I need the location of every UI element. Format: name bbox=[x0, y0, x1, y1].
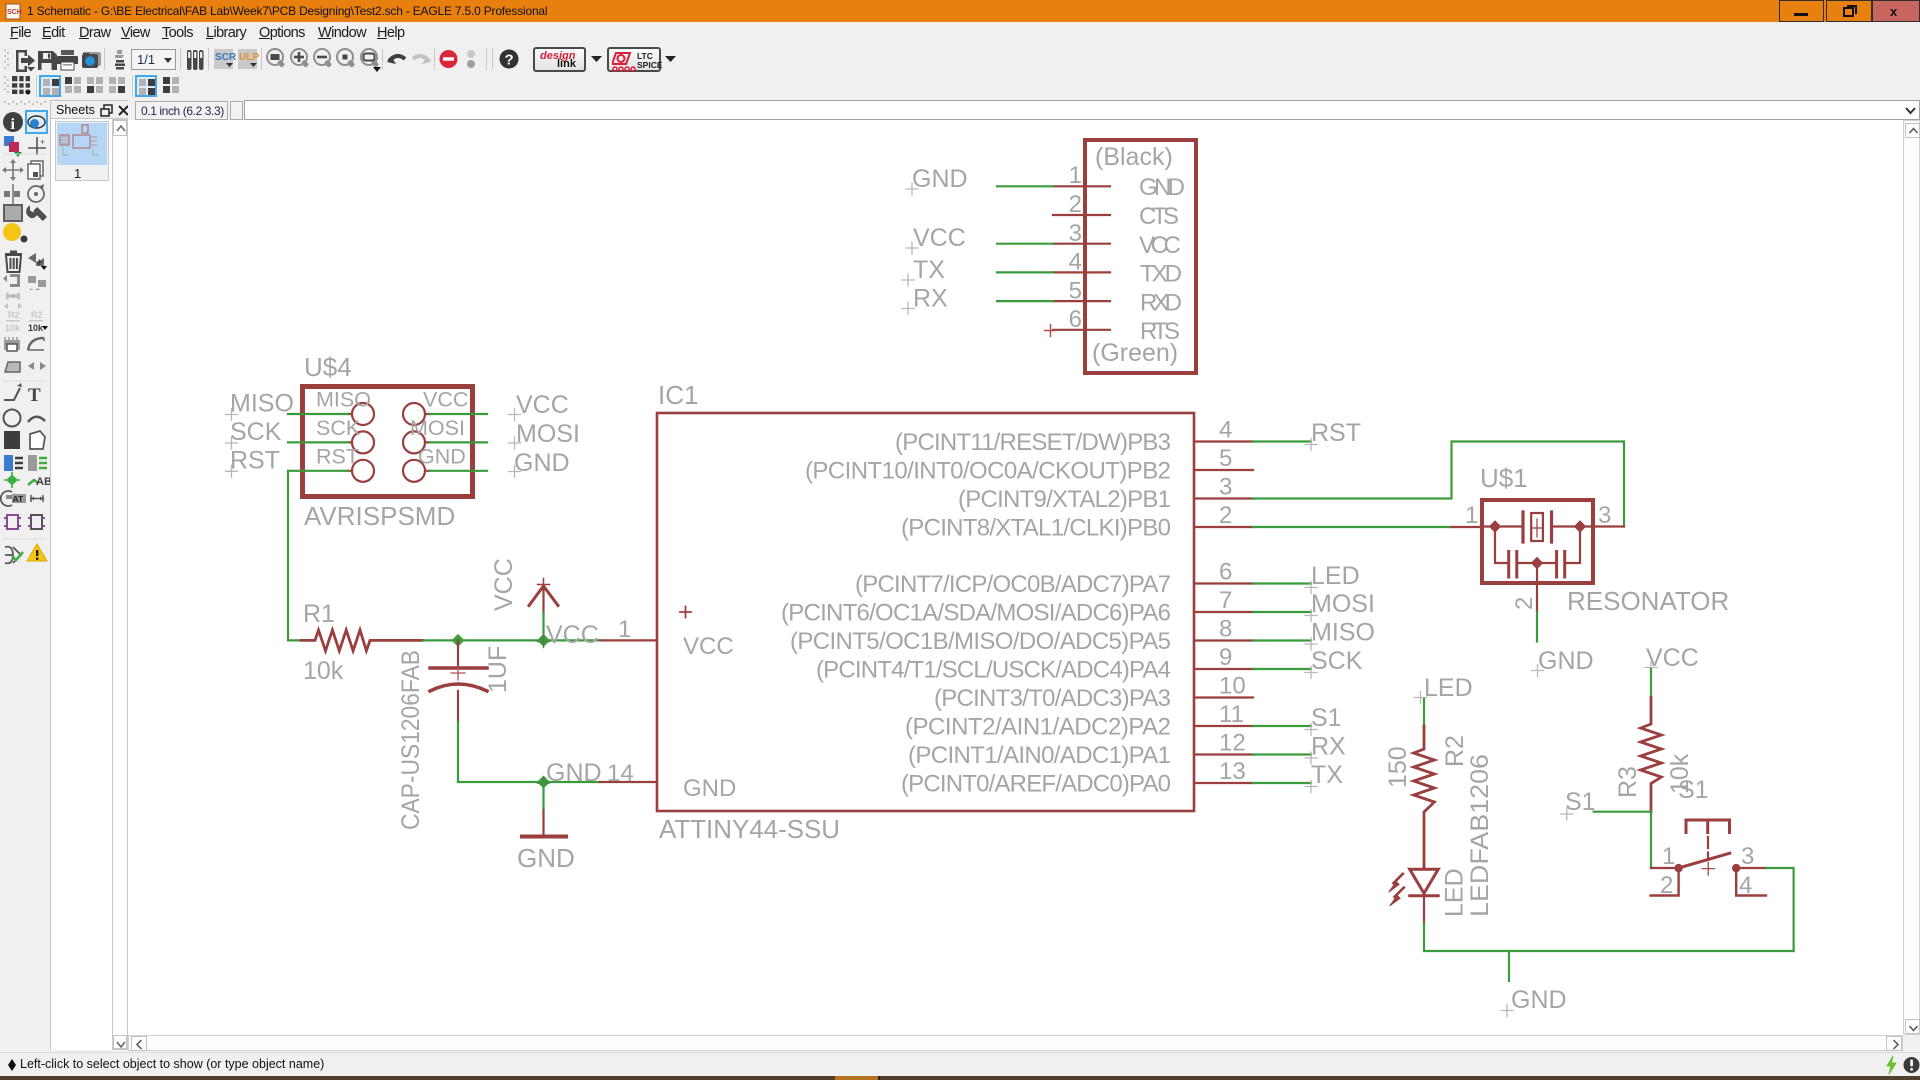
svg-text:2: 2 bbox=[1660, 872, 1673, 899]
svg-text:MOSI: MOSI bbox=[410, 416, 465, 440]
svg-text:TX: TX bbox=[913, 256, 945, 284]
net label RX (IC1 pin12) bbox=[1305, 733, 1346, 765]
svg-text:GND: GND bbox=[418, 445, 466, 469]
resistor R1 bbox=[301, 630, 423, 651]
wire net RX to connector bbox=[997, 300, 1053, 302]
svg-text:RX: RX bbox=[913, 285, 948, 313]
U$4 pin circles bbox=[348, 403, 430, 482]
net label S1 (IC1 pin11) bbox=[1305, 704, 1342, 736]
net label GND (bottom) bbox=[1501, 986, 1567, 1017]
svg-text:+: + bbox=[36, 257, 42, 269]
wire RST net down to R1 bbox=[288, 471, 301, 641]
wire S1 label to switch bbox=[1594, 812, 1651, 868]
wire C1 to GND rail bbox=[458, 722, 544, 782]
resonator junction dots bbox=[1489, 520, 1586, 569]
svg-text:SCK: SCK bbox=[1311, 647, 1363, 675]
svg-text:10: 10 bbox=[1219, 673, 1246, 700]
capacitor C1 stem upper bbox=[457, 640, 459, 668]
svg-text:4: 4 bbox=[1219, 417, 1232, 444]
resistor R2 bbox=[1414, 726, 1435, 868]
resistor R3 bbox=[1641, 698, 1662, 812]
svg-text:SCK: SCK bbox=[316, 416, 361, 440]
LED emission arrows bbox=[1389, 874, 1404, 906]
svg-text:T: T bbox=[28, 385, 41, 406]
svg-text:GND: GND bbox=[546, 759, 602, 787]
svg-text:GND: GND bbox=[1511, 986, 1567, 1014]
wire U$4 GND out bbox=[430, 470, 487, 472]
IC1 plus mark bbox=[680, 607, 691, 618]
wire stub IC1 pin1 bbox=[600, 639, 657, 641]
net label SCK bbox=[226, 418, 282, 449]
resonator pin numbers 1 3 2 bbox=[1465, 502, 1611, 610]
svg-text:R1: R1 bbox=[303, 600, 335, 628]
wire net TX to connector bbox=[997, 271, 1053, 273]
LED name rotated bbox=[1441, 868, 1469, 917]
wire stub to GND label bbox=[1508, 951, 1510, 981]
svg-text:CTS: CTS bbox=[1139, 203, 1179, 230]
svg-text:VCC: VCC bbox=[546, 621, 599, 649]
svg-text:5: 5 bbox=[1219, 445, 1232, 472]
svg-text:(PCINT8/XTAL1/CLKI)PB0: (PCINT8/XTAL1/CLKI)PB0 bbox=[901, 515, 1171, 542]
net label VCC (at IC1 pin1) bbox=[538, 621, 599, 649]
junction at VCC arrow bbox=[537, 634, 550, 647]
IC1 value ATTINY44-SSU bbox=[659, 814, 840, 844]
svg-text:MISO: MISO bbox=[230, 390, 294, 418]
capacitor C1 origin cross bbox=[451, 666, 465, 680]
wire IC1 pin9 to SCK label bbox=[1253, 668, 1311, 670]
svg-text:GND: GND bbox=[1139, 174, 1185, 201]
connector origin cross bbox=[1045, 325, 1057, 337]
svg-text:7: 7 bbox=[1219, 587, 1232, 614]
net label GND (IC1 pin14) bbox=[538, 759, 602, 789]
connector pin 5 RXD stub bbox=[1053, 300, 1110, 302]
net label VCC (above R3) bbox=[1645, 644, 1699, 674]
svg-text:10k: 10k bbox=[303, 657, 344, 685]
LED value LEDFAB1206 bbox=[1466, 754, 1494, 917]
svg-text:12: 12 bbox=[1219, 730, 1246, 757]
net label GND (resonator) bbox=[1532, 647, 1594, 677]
connector U$4 AVRISPSMD box bbox=[303, 387, 473, 497]
svg-text:(PCINT6/OC1A/SDA/MOSI/ADC6)PA6: (PCINT6/OC1A/SDA/MOSI/ADC6)PA6 bbox=[781, 600, 1171, 627]
svg-text:RX: RX bbox=[1311, 733, 1346, 761]
wire IC1 pin3 to resonator pin3 bbox=[1253, 442, 1624, 527]
net label MOSI (IC1 pin7) bbox=[1305, 590, 1375, 622]
wire U$4 MOSI out bbox=[430, 441, 487, 443]
connector pin 4 TXD stub bbox=[1053, 271, 1110, 273]
net label VCC (top) bbox=[906, 224, 966, 254]
wire stub IC1 pin14 bbox=[600, 781, 657, 783]
svg-text:S1: S1 bbox=[1311, 704, 1342, 732]
wire RST to U$4 bbox=[288, 470, 348, 472]
net label MOSI (U$4 right) bbox=[509, 420, 580, 449]
wire IC1 pin13 to TX label bbox=[1253, 782, 1311, 784]
net label LED (IC1 pin6) bbox=[1305, 562, 1360, 594]
svg-text:1: 1 bbox=[1662, 843, 1675, 870]
bottom horizontal scrollbar bbox=[128, 1035, 1903, 1051]
svg-text:1: 1 bbox=[1465, 502, 1478, 529]
wire R1 to IC1 VCC bbox=[423, 639, 600, 641]
svg-text:VCC: VCC bbox=[423, 388, 468, 412]
resonator pin1 stub bbox=[1452, 526, 1481, 528]
net label TX (IC1 pin13) bbox=[1305, 761, 1343, 793]
svg-text:RST: RST bbox=[316, 445, 359, 469]
resonator pin3 stub bbox=[1595, 525, 1624, 527]
switch S1 pin2 stub bbox=[1651, 870, 1679, 896]
IC1 port names PB3..PB0 PA7..PA0 bbox=[781, 429, 1171, 798]
connector pin names bbox=[1139, 174, 1185, 345]
svg-text:3: 3 bbox=[1219, 474, 1232, 501]
toolbar row 1 bbox=[0, 45, 1920, 74]
svg-text:(PCINT3/T0/ADC3)PA3: (PCINT3/T0/ADC3)PA3 bbox=[934, 685, 1171, 712]
IC1 ATTINY44-SSU box bbox=[657, 413, 1194, 811]
left tool palette bbox=[0, 98, 50, 1052]
connector J-FTDI box bbox=[1085, 140, 1196, 373]
connector label (Green) bbox=[1092, 339, 1178, 367]
junction at GND rail bbox=[537, 775, 550, 788]
svg-text:2: 2 bbox=[1511, 597, 1538, 610]
LED D1 symbol bbox=[1410, 869, 1439, 896]
svg-text:MOSI: MOSI bbox=[1311, 590, 1375, 618]
svg-text:VCC: VCC bbox=[490, 558, 518, 611]
svg-text:(PCINT0/AREF/ADC0)PA0: (PCINT0/AREF/ADC0)PA0 bbox=[901, 771, 1171, 798]
svg-text:LED: LED bbox=[1311, 562, 1360, 590]
capacitor name CAP-US1206FAB bbox=[397, 650, 425, 830]
svg-text:14: 14 bbox=[607, 760, 634, 787]
net label RST bbox=[226, 447, 281, 478]
svg-text:(PCINT4/T1/SCL/USCK/ADC4)PA4: (PCINT4/T1/SCL/USCK/ADC4)PA4 bbox=[816, 657, 1171, 684]
svg-text:RXD: RXD bbox=[1140, 290, 1182, 317]
schematic canvas drawing bbox=[128, 120, 1903, 1035]
net label MISO (IC1 pin8) bbox=[1305, 619, 1375, 651]
svg-text:3: 3 bbox=[1741, 843, 1754, 870]
switch S1 pin numbers bbox=[1660, 843, 1754, 899]
connector pin 3 VCC stub bbox=[1053, 243, 1110, 245]
svg-text:GND: GND bbox=[683, 775, 736, 802]
value 10k (R3) bbox=[1666, 753, 1694, 794]
net label RST (IC1 pin4) bbox=[1305, 419, 1361, 451]
right vertical scrollbar bbox=[1903, 120, 1920, 1035]
IC1 GND pin name bbox=[683, 775, 736, 802]
svg-text:GND: GND bbox=[912, 165, 968, 193]
wire GND rail to IC1 pin14 bbox=[544, 781, 601, 783]
svg-text:10k: 10k bbox=[5, 323, 21, 333]
net label SCK (IC1 pin9) bbox=[1305, 647, 1363, 679]
wire VCC arrow to junction bbox=[542, 612, 544, 640]
IC1 pin1 number bbox=[618, 616, 631, 643]
svg-text:GND: GND bbox=[517, 843, 575, 873]
switch S1 pin3 stub bbox=[1736, 867, 1766, 869]
wire VCC label to R3 bbox=[1650, 669, 1652, 698]
svg-text:ATTINY44-SSU: ATTINY44-SSU bbox=[659, 814, 840, 844]
svg-text:13: 13 bbox=[1219, 758, 1246, 785]
svg-text:R2: R2 bbox=[8, 310, 20, 320]
label R3 bbox=[1614, 766, 1642, 798]
wire switch pin3 to bottom rail bbox=[1766, 868, 1794, 951]
switch S1 pin1 stub bbox=[1651, 867, 1675, 869]
svg-text:(PCINT2/AIN1/ADC2)PA2: (PCINT2/AIN1/ADC2)PA2 bbox=[905, 714, 1171, 741]
svg-text:AB: AB bbox=[36, 476, 50, 488]
net label VCC (U$4 right) bbox=[509, 391, 569, 421]
svg-text:(Black): (Black) bbox=[1095, 143, 1173, 171]
svg-text:(PCINT9/XTAL2)PB1: (PCINT9/XTAL2)PB1 bbox=[958, 486, 1171, 513]
connector pin 1 GND stub bbox=[1053, 185, 1110, 187]
resonator pin2 stem bbox=[1536, 563, 1538, 612]
IC1 name bbox=[658, 380, 698, 410]
sheets panel bbox=[50, 100, 130, 119]
IC1 right pin stubs bbox=[1194, 442, 1253, 784]
connector pin numbers 1-6 bbox=[1069, 162, 1082, 333]
svg-text:R3: R3 bbox=[1614, 766, 1642, 798]
wire net GND to connector bbox=[997, 185, 1053, 187]
svg-text:3: 3 bbox=[1598, 502, 1611, 529]
svg-text:RST: RST bbox=[230, 447, 280, 475]
svg-text:R2: R2 bbox=[1441, 735, 1469, 767]
ground symbol GND (below C1) bbox=[517, 782, 575, 873]
resonator value RESONATOR bbox=[1567, 586, 1729, 616]
svg-text:x: x bbox=[1890, 4, 1898, 19]
net label LED (above R2) bbox=[1415, 674, 1473, 704]
value 10k (R1) bbox=[303, 657, 344, 685]
svg-text:GND: GND bbox=[1538, 647, 1594, 675]
status bar bbox=[0, 1052, 1920, 1077]
wire IC1 pin7 to MOSI label bbox=[1253, 611, 1311, 613]
junction at R1/C1 bbox=[451, 634, 464, 647]
coordinate bar + command line bbox=[128, 98, 1920, 120]
IC1 right pin numbers bbox=[1219, 417, 1246, 786]
wire net VCC to connector bbox=[997, 243, 1053, 245]
svg-text:(PCINT1/AIN0/ADC1)PA1: (PCINT1/AIN0/ADC1)PA1 bbox=[908, 742, 1171, 769]
svg-text:U$4: U$4 bbox=[304, 352, 352, 382]
IC1 VCC pin name bbox=[683, 633, 734, 660]
svg-text:MISO: MISO bbox=[1311, 619, 1375, 647]
svg-text:(PCINT7/ICP/OC0B/ADC7)PA7: (PCINT7/ICP/OC0B/ADC7)PA7 bbox=[855, 571, 1171, 598]
wire U$4 VCC out bbox=[430, 413, 487, 415]
svg-text:R2: R2 bbox=[31, 310, 43, 320]
menu bar bbox=[0, 22, 1920, 45]
net label S1 (wire) bbox=[1561, 788, 1596, 820]
connector pin 6 RTS stub bbox=[1053, 329, 1110, 331]
svg-text:2: 2 bbox=[1219, 502, 1232, 529]
resonator U$1 name bbox=[1480, 463, 1528, 493]
wire LED cathode down bbox=[1423, 896, 1425, 923]
svg-text:4: 4 bbox=[1739, 872, 1752, 899]
label R1 bbox=[303, 600, 335, 628]
net label GND (top) bbox=[906, 165, 968, 195]
svg-text:CAP-US1206FAB: CAP-US1206FAB bbox=[397, 650, 425, 830]
svg-text:150: 150 bbox=[1384, 746, 1412, 788]
svg-text:SCH: SCH bbox=[7, 9, 22, 16]
switch S1 dashed link bbox=[1707, 837, 1709, 860]
svg-text:6: 6 bbox=[1219, 559, 1232, 586]
svg-text:i: i bbox=[11, 116, 16, 133]
svg-text:GND: GND bbox=[514, 449, 570, 477]
label R2 bbox=[1441, 735, 1469, 767]
supply symbol VCC arrow bbox=[529, 579, 558, 613]
svg-text:AVRISPSMD: AVRISPSMD bbox=[304, 501, 455, 531]
svg-text:RESONATOR: RESONATOR bbox=[1567, 586, 1729, 616]
svg-text:TXD: TXD bbox=[1140, 261, 1182, 288]
connector pin 2 CTS stub bbox=[1053, 214, 1110, 216]
svg-text:(PCINT5/OC1B/MISO/DO/ADC5)PA5: (PCINT5/OC1B/MISO/DO/ADC5)PA5 bbox=[790, 628, 1171, 655]
value 150 (R2) bbox=[1384, 746, 1412, 788]
svg-text:1UF: 1UF bbox=[484, 646, 512, 693]
resonator U$1 box bbox=[1482, 500, 1593, 583]
white canvas bbox=[128, 120, 1903, 1035]
wire IC1 pin6 to LED label bbox=[1253, 582, 1311, 584]
resonator internal capacitors bbox=[1495, 527, 1580, 578]
net label RX bbox=[902, 285, 948, 315]
net label MISO bbox=[226, 390, 294, 421]
svg-text:?: ? bbox=[505, 52, 514, 69]
svg-text:11: 11 bbox=[1219, 701, 1244, 728]
supply VCC rotated text bbox=[490, 558, 518, 611]
svg-text:S1: S1 bbox=[1678, 776, 1709, 804]
svg-text:U$1: U$1 bbox=[1480, 463, 1528, 493]
svg-text:10k: 10k bbox=[28, 323, 44, 333]
wire IC1 pin11 to S1 label bbox=[1253, 725, 1311, 727]
svg-text:VCC: VCC bbox=[1139, 232, 1181, 259]
wire LED label to R2 bbox=[1423, 699, 1425, 726]
svg-text:LED: LED bbox=[1424, 674, 1473, 702]
capacitor C1 stem lower bbox=[457, 691, 459, 722]
svg-text:(PCINT11/RESET/DW)PB3: (PCINT11/RESET/DW)PB3 bbox=[895, 429, 1171, 456]
U$4 pin names bbox=[316, 388, 468, 469]
svg-text:LEDFAB1206: LEDFAB1206 bbox=[1466, 754, 1494, 917]
svg-text:RTS: RTS bbox=[1140, 318, 1180, 345]
capacitor C1 plates bbox=[430, 668, 487, 691]
svg-text:RST: RST bbox=[1311, 419, 1361, 447]
wire SCK to U$4 bbox=[288, 441, 348, 443]
svg-text:S1: S1 bbox=[1565, 788, 1596, 816]
net label GND (U$4 right) bbox=[509, 449, 570, 478]
switch S1 pin4 stub bbox=[1736, 870, 1766, 896]
capacitor value 1UF bbox=[484, 646, 512, 693]
svg-text:AT: AT bbox=[13, 494, 25, 504]
IC1 pin14 number bbox=[607, 760, 634, 787]
connector label (Black) bbox=[1095, 143, 1173, 171]
wire IC1 pin2 to resonator pin1 bbox=[1253, 526, 1452, 528]
wire MISO to U$4 bbox=[288, 413, 348, 415]
net label TX bbox=[902, 256, 945, 286]
svg-text:LED: LED bbox=[1441, 868, 1469, 917]
svg-text:SCK: SCK bbox=[230, 418, 282, 446]
svg-text:VCC: VCC bbox=[913, 224, 966, 252]
wire bottom GND rail bbox=[1424, 923, 1794, 951]
svg-text:VCC: VCC bbox=[516, 391, 569, 419]
U$4 value AVRISPSMD bbox=[304, 501, 455, 531]
svg-text:MOSI: MOSI bbox=[516, 420, 580, 448]
svg-text:MISO: MISO bbox=[316, 388, 371, 412]
svg-text:9: 9 bbox=[1219, 644, 1232, 671]
svg-text:1: 1 bbox=[1069, 162, 1082, 189]
svg-text:IC1: IC1 bbox=[658, 380, 698, 410]
svg-text:1: 1 bbox=[618, 616, 631, 643]
wire IC1 pin12 to RX label bbox=[1253, 753, 1311, 755]
svg-text:(PCINT10/INT0/OC0A/CKOUT)PB2: (PCINT10/INT0/OC0A/CKOUT)PB2 bbox=[805, 458, 1171, 485]
svg-text:VCC: VCC bbox=[683, 633, 734, 660]
wire IC1 pin8 to MISO label bbox=[1253, 639, 1311, 641]
svg-text:TX: TX bbox=[1311, 761, 1343, 789]
switch S1 actuator bbox=[1686, 820, 1730, 833]
wire IC1 pin4 to RST label bbox=[1253, 440, 1311, 442]
svg-text:8: 8 bbox=[1219, 616, 1232, 643]
wire resonator pin2 to GND label bbox=[1536, 612, 1538, 642]
resonator crystal element bbox=[1484, 512, 1591, 542]
switch S1 blade and contacts bbox=[1674, 853, 1740, 875]
svg-text:+: + bbox=[40, 137, 45, 147]
window title bar bbox=[0, 0, 1920, 22]
connector U$4 name bbox=[304, 352, 352, 382]
switch S1 name bbox=[1678, 776, 1709, 804]
